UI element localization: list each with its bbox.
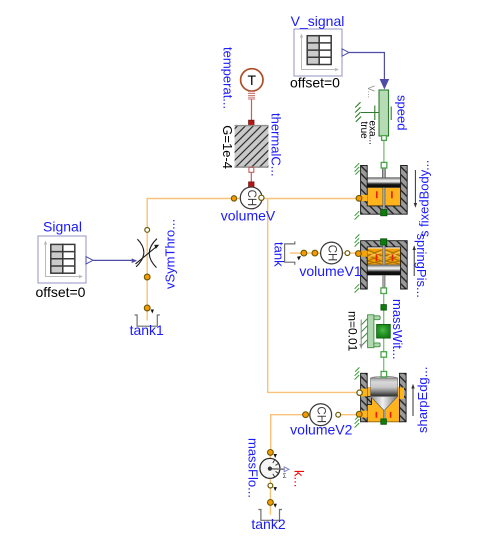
svg-text:CH: CH bbox=[315, 406, 327, 423]
svg-text:volumeV2: volumeV2 bbox=[290, 422, 352, 438]
svg-text:offset=0: offset=0 bbox=[36, 284, 86, 300]
svg-text:true: true bbox=[358, 122, 369, 140]
svg-text:CH: CH bbox=[326, 245, 338, 262]
svg-text:massWit...: massWit... bbox=[390, 299, 405, 360]
svg-text:springPis...: springPis... bbox=[414, 234, 429, 298]
svg-text:offset=0: offset=0 bbox=[290, 75, 340, 91]
svg-text:tank2: tank2 bbox=[251, 516, 285, 532]
svg-text:vSymThro...: vSymThro... bbox=[163, 219, 178, 289]
svg-text:thermalC...: thermalC... bbox=[269, 113, 284, 177]
svg-text:k...: k... bbox=[292, 470, 307, 487]
svg-text:volumeV: volumeV bbox=[221, 208, 276, 224]
svg-text:sharpEdg...: sharpEdg... bbox=[415, 367, 430, 434]
svg-text:massFlo...: massFlo... bbox=[246, 438, 261, 498]
svg-text:G=1e-4: G=1e-4 bbox=[220, 125, 235, 169]
svg-text:volumeV1: volumeV1 bbox=[299, 263, 361, 279]
svg-text:V_signal: V_signal bbox=[291, 13, 345, 29]
svg-text:Signal: Signal bbox=[43, 219, 82, 235]
svg-text:T: T bbox=[248, 72, 257, 88]
svg-text:s fixedBody...: s fixedBody... bbox=[417, 160, 432, 237]
svg-text:Σ: Σ bbox=[283, 474, 287, 480]
svg-text:tank1: tank1 bbox=[130, 322, 164, 338]
svg-text:tank: tank bbox=[272, 242, 287, 267]
svg-text:V...: V... bbox=[366, 86, 376, 99]
svg-text:CH: CH bbox=[245, 190, 257, 207]
svg-text:speed: speed bbox=[394, 95, 409, 130]
svg-text:temperat...: temperat... bbox=[221, 47, 236, 109]
svg-text:m=0.01: m=0.01 bbox=[346, 311, 360, 352]
